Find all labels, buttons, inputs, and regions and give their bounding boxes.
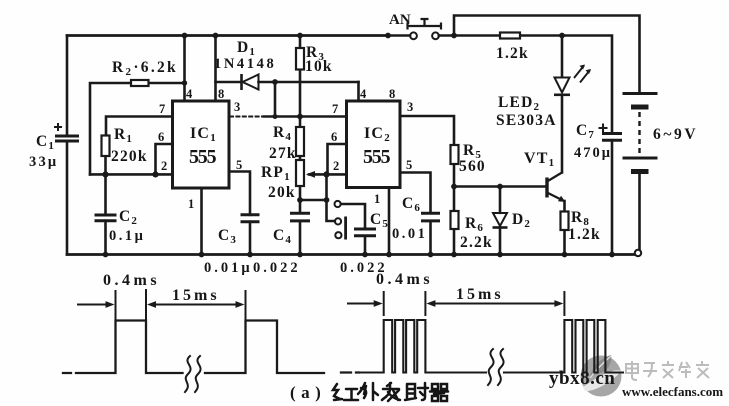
watermark hanzi outline char 4 <box>679 362 691 378</box>
junction: pin3 node at R3 bottom <box>297 114 303 120</box>
capacitor C7 polarity plus <box>599 124 608 133</box>
pushbutton AN contact circle left <box>410 32 417 39</box>
wire: IC2 pin5 to C6 top <box>400 173 431 214</box>
wire: R4 top lead <box>299 117 302 128</box>
svg-text:0.1μ: 0.1μ <box>109 228 145 244</box>
svg-text:7: 7 <box>332 102 338 116</box>
junction: AN left rail <box>385 33 391 39</box>
wire: C6 bottom lead <box>429 221 432 255</box>
svg-text:20k: 20k <box>268 184 296 201</box>
watermark logo white swoosh <box>583 370 621 391</box>
wire: battery negative lead <box>638 175 641 250</box>
junction: R6 ground <box>451 252 457 258</box>
junction: IC2 pin1 ground <box>386 252 392 258</box>
diode D1 cathode bar <box>240 74 243 90</box>
svg-text:15ms: 15ms <box>172 287 220 304</box>
capacitor C5 (0.022) plates <box>354 229 376 236</box>
capacitor C1 (33u) plates <box>55 136 79 141</box>
wire: C4 bottom lead <box>299 221 302 255</box>
wire: D1 cathode-side wire to IC2 pin4 elbow <box>259 81 359 84</box>
waveform A arrow 0.4ms <box>78 304 110 306</box>
watermark logo leaf stem <box>590 356 611 378</box>
svg-text:1N4148: 1N4148 <box>214 56 276 72</box>
potentiometer RP1 wiper arrowhead <box>306 171 315 178</box>
watermark logo leaf <box>590 355 611 377</box>
svg-text:RP1: RP1 <box>261 164 291 183</box>
svg-text:www.elecfans.com: www.elecfans.com <box>622 384 723 399</box>
wire: R7 left wire <box>454 34 500 37</box>
battery negative terminal circle <box>635 250 641 256</box>
junction: D2 ground <box>497 252 503 258</box>
junction: RP1 bottom node <box>297 197 303 203</box>
svg-text:220k: 220k <box>111 148 148 165</box>
wire: IC1 pin4 vertical <box>183 36 186 102</box>
svg-text:560: 560 <box>459 158 486 175</box>
junction: R8 ground <box>562 252 568 258</box>
wire: R3 bottom lead <box>299 70 302 117</box>
svg-text:C2: C2 <box>119 208 138 227</box>
arrowhead: waveform A 15ms left <box>147 301 156 308</box>
watermark hanzi outline char 3 <box>662 361 674 378</box>
wire: pin3 node line to IC2 pin7 <box>264 115 347 118</box>
svg-text:AN: AN <box>389 12 411 28</box>
svg-text:27k: 27k <box>269 145 297 162</box>
wire: IC1 pin3 stub (dotted) <box>230 116 266 118</box>
pushbutton AN actuator stem <box>421 19 429 26</box>
waveform B double arrow 15ms <box>431 303 559 305</box>
junction: C2 ground <box>103 252 109 258</box>
wire: D1 junction drop to pin3 node <box>274 82 277 117</box>
wire: AN switch right wire <box>439 34 454 37</box>
wire: D1 anode-side wire from IC1 pin8 vertical <box>216 81 242 84</box>
wire: IC1 pin8 vertical <box>214 36 217 102</box>
waveform A double arrow 15ms <box>152 304 240 306</box>
battery B1 long plate top <box>623 92 658 95</box>
wire: C7 bottom lead <box>611 140 614 254</box>
waveform B dimension tick 2 <box>424 292 426 315</box>
capacitor C1 polarity plus <box>54 123 62 131</box>
svg-text:5: 5 <box>236 158 242 172</box>
svg-text:0.4ms: 0.4ms <box>103 272 160 289</box>
wire: R6 bottom lead <box>453 229 456 255</box>
watermark hanzi outline char 1 <box>626 361 638 380</box>
svg-text:2: 2 <box>161 159 167 173</box>
waveform B dimension tick 3 <box>563 292 565 315</box>
svg-text:D2: D2 <box>512 211 531 230</box>
svg-text:7: 7 <box>159 102 165 116</box>
svg-text:2.2k: 2.2k <box>460 234 493 251</box>
switch S blade bar <box>344 217 347 240</box>
svg-text:R4: R4 <box>273 124 292 143</box>
waveform B break squiggle 1 <box>488 349 494 385</box>
svg-text:1.2k: 1.2k <box>568 226 601 243</box>
watermark logo circle (elecfans) <box>581 356 622 397</box>
junction: AN right rail <box>451 33 457 39</box>
wire: switch throw to C5 top <box>341 204 365 229</box>
svg-text:2: 2 <box>333 159 339 173</box>
wire: left rail lower (C1 bottom to ground) <box>66 141 69 255</box>
svg-text:3: 3 <box>407 100 413 114</box>
svg-text:C3: C3 <box>218 227 237 246</box>
arrowhead: waveform A 0.4ms right <box>106 301 115 308</box>
diode D1 (1N4148) triangle <box>243 75 259 90</box>
caption hanzi char qi <box>430 384 448 401</box>
svg-text:C1: C1 <box>36 133 55 152</box>
wire: IC1 pin6 bracket <box>156 144 173 174</box>
wire: R7 right wire to C7 top <box>520 36 612 134</box>
resistor R8 (1.2k) <box>561 212 569 231</box>
wire: R2 left lead and left loop <box>90 83 131 174</box>
svg-text:8: 8 <box>218 87 224 101</box>
wire: R3 top lead <box>299 36 302 49</box>
svg-text:555: 555 <box>189 146 217 168</box>
junction: pin4 rail <box>182 33 188 39</box>
waveform B baseline start dashes <box>341 371 359 373</box>
svg-text:0.01μ: 0.01μ <box>204 260 253 276</box>
wire: left rail upper (C1 top to rail) <box>66 36 69 137</box>
junction: C5 ground <box>362 252 368 258</box>
wire: IC2 pin4 vertical <box>357 82 360 101</box>
resistor R4 (27k) <box>296 127 304 156</box>
wire: IC1 pin7 to R1 top <box>106 117 173 136</box>
resistor R1 (220k) <box>102 136 110 157</box>
junction: switch drop node <box>324 197 330 203</box>
wire: C2 bottom lead <box>104 221 107 255</box>
svg-text:3: 3 <box>234 100 240 114</box>
LED2 emission arrow 1 <box>574 66 584 79</box>
watermark hanzi outline char 5 <box>696 361 709 378</box>
wire: LED2 top lead <box>561 36 564 77</box>
junction: C6 ground <box>428 252 434 258</box>
battery B1 short plate bottom <box>631 169 649 174</box>
waveform A dimension tick 1 <box>115 291 117 320</box>
svg-text:6~9V: 6~9V <box>653 126 698 143</box>
wire: LED2 cathode to VT1 collector <box>561 97 564 173</box>
svg-text:C4: C4 <box>273 227 292 246</box>
svg-text:470μ: 470μ <box>574 145 612 161</box>
svg-text:0.022: 0.022 <box>253 260 301 276</box>
watermark hanzi outline char 2 <box>643 363 657 377</box>
svg-text:C7: C7 <box>576 122 595 141</box>
wire: IC2 pin1 to ground <box>388 188 391 255</box>
wire: node line RP1 bottom to switch drop <box>300 199 327 202</box>
svg-text:4: 4 <box>186 87 193 101</box>
resistor R6 (2.2k) <box>451 211 459 229</box>
wire: IC2 pin2 junction drop to switch pole <box>327 174 335 221</box>
wire: IC2 pin6 bracket <box>328 144 347 174</box>
wire: R8 bottom lead <box>563 230 566 255</box>
battery B1 short plate top <box>631 105 649 110</box>
wire: RP1 bottom lead <box>299 186 302 200</box>
svg-text:1.2k: 1.2k <box>496 45 529 62</box>
LED2 emission arrow 2 <box>580 70 590 83</box>
wire: R6 top lead <box>453 187 456 212</box>
wire: R1 bottom lead <box>104 156 107 174</box>
caption hanzi char hong <box>333 384 358 400</box>
caption hanzi char wai <box>358 383 378 400</box>
capacitor C7 (470u) plates <box>602 134 622 141</box>
waveform B burst 1 trace <box>361 320 486 373</box>
switch S pole contact circle 2 <box>335 218 341 224</box>
svg-text:15ms: 15ms <box>456 286 504 303</box>
wire: C3 bottom lead <box>249 222 252 255</box>
waveform B mid baseline after break <box>504 371 564 373</box>
junction: C3 ground <box>247 252 253 258</box>
waveform B break squiggle 2 <box>498 349 504 385</box>
junction: C4 ground <box>297 252 303 258</box>
junction: D1 cathode node <box>272 79 278 85</box>
wire: VT1 emitter lead to R8 <box>563 201 566 212</box>
battery B1 dashed middle link <box>638 112 640 153</box>
svg-text:0.4ms: 0.4ms <box>376 271 433 288</box>
pushbutton AN actuator bar <box>408 23 442 30</box>
wire: IC2 pin2 line <box>327 173 347 176</box>
waveform B dimension tick 1 <box>383 292 385 315</box>
svg-text:1: 1 <box>188 197 194 211</box>
switch S throw contact circle 1 <box>335 201 341 207</box>
svg-text:6: 6 <box>158 130 164 144</box>
diode D2 cathode bar <box>493 226 508 229</box>
waveform A dimension tick 2 <box>145 290 147 320</box>
wire: upper right rail to battery <box>454 16 640 92</box>
capacitor C6 (0.01) plates <box>421 213 440 221</box>
transistor VT1 emitter arrowhead <box>558 196 566 202</box>
wire: IC1 pin1 to ground <box>200 188 203 255</box>
svg-text:1: 1 <box>374 192 380 206</box>
resistor R3 (10k) <box>296 48 304 70</box>
svg-text:R1: R1 <box>114 126 133 145</box>
junction: D2 top node <box>497 184 503 190</box>
svg-text:4: 4 <box>360 87 367 101</box>
junction: pin6 bracket node IC1 <box>152 171 158 177</box>
potentiometer RP1 (20k) body <box>296 160 304 186</box>
waveform A baseline start dashes <box>63 372 79 374</box>
junction: R2 right at pin4 vertical <box>182 80 187 85</box>
diode D2 triangle <box>493 213 507 226</box>
waveform A break squiggle 2 <box>195 356 201 392</box>
svg-text:10k: 10k <box>305 58 333 75</box>
svg-text:C5: C5 <box>370 211 389 230</box>
LED2 triangle <box>555 78 570 93</box>
junction: R1 bottom node <box>102 171 108 177</box>
resistor R2 (6.2k) <box>131 80 149 86</box>
LED2 cathode bar <box>554 94 570 97</box>
wire: C4 top lead <box>299 200 302 213</box>
wire: R5 bottom lead <box>453 164 456 187</box>
svg-text:R6: R6 <box>465 215 484 234</box>
waveform B burst 2 trace <box>564 320 623 373</box>
wire: D2 top lead <box>499 187 502 213</box>
arrowhead: waveform B 15ms left <box>426 300 435 307</box>
resistor R7 (1.2k) <box>500 33 520 39</box>
capacitor C4 (0.022) plates <box>290 213 310 221</box>
svg-text:C6: C6 <box>402 195 421 214</box>
arrowhead: waveform B 15ms right <box>554 300 563 307</box>
junction: C7 ground <box>609 252 615 258</box>
junction: IC2 pin2 node <box>323 171 329 177</box>
junction: R3 rail <box>297 33 303 39</box>
svg-text:555: 555 <box>363 146 391 168</box>
arrowhead: waveform B 0.4ms right <box>374 300 383 307</box>
wire: C5 bottom lead <box>364 236 367 255</box>
svg-text:(a): (a) <box>290 383 326 402</box>
svg-text:8: 8 <box>389 87 395 101</box>
svg-text:ybx8.cn: ybx8.cn <box>549 368 615 389</box>
svg-text:SE303A: SE303A <box>496 112 557 129</box>
pushbutton AN contact circle right <box>432 32 439 39</box>
arrowhead: waveform A 15ms right <box>236 301 245 308</box>
op-amp IC2 555 timer body <box>347 101 401 188</box>
wire: AN switch left wire <box>388 34 410 37</box>
junction: pin3 node drop <box>273 114 278 119</box>
transistor VT1 emitter stroke <box>547 193 563 201</box>
wire: waveform A mid baseline after break <box>205 321 324 374</box>
wire: IC1 pin5 to C3 <box>229 172 250 215</box>
wire: R2 right lead <box>149 82 185 85</box>
switch S throw contact circle 3 <box>335 232 341 238</box>
svg-text:33μ: 33μ <box>29 154 58 170</box>
transistor VT1 base bar <box>545 178 548 198</box>
capacitor C3 (0.01u) plates <box>241 215 260 222</box>
svg-text:5: 5 <box>406 158 412 172</box>
wire: IC1 pin2 node line <box>90 173 173 176</box>
capacitor C2 (0.1u) plates <box>95 215 117 221</box>
junction: pin8 rail <box>213 33 219 39</box>
wire: RP1 wiper arrow line <box>309 173 327 176</box>
op-amp IC1 555 timer body <box>173 101 230 188</box>
svg-text:6: 6 <box>331 130 337 144</box>
caption hanzi char fa <box>382 383 400 401</box>
waveform A dimension tick 3 <box>245 291 247 320</box>
junction: R5 bottom node <box>451 184 457 190</box>
transistor VT1 collector stroke <box>547 173 562 182</box>
resistor R5 (560) <box>451 145 459 164</box>
wire: top VCC rail <box>67 34 388 37</box>
caption hanzi char she <box>405 383 428 400</box>
wire: base node line to VT1 <box>454 185 546 188</box>
svg-text:LED2: LED2 <box>498 94 540 113</box>
wire: IC2 pin3 to R5 top <box>400 116 454 145</box>
junction: IC1 pin1 ground <box>199 252 205 258</box>
waveform A break squiggle 1 <box>185 356 191 392</box>
wire: C2 top lead <box>104 174 107 215</box>
waveform B arrow 0.4ms <box>348 303 378 305</box>
svg-text:R2·6.2k: R2·6.2k <box>112 59 178 78</box>
junction: LED top rail <box>559 33 565 39</box>
waveform A pulse trace <box>81 321 183 374</box>
wire: D2 bottom lead <box>499 228 502 255</box>
wire: R4 to RP1 <box>299 156 302 160</box>
wire: ground rail <box>67 253 634 256</box>
svg-text:VT1: VT1 <box>524 150 555 169</box>
svg-text:0.01: 0.01 <box>392 226 427 242</box>
battery B1 long plate bottom <box>623 157 658 160</box>
